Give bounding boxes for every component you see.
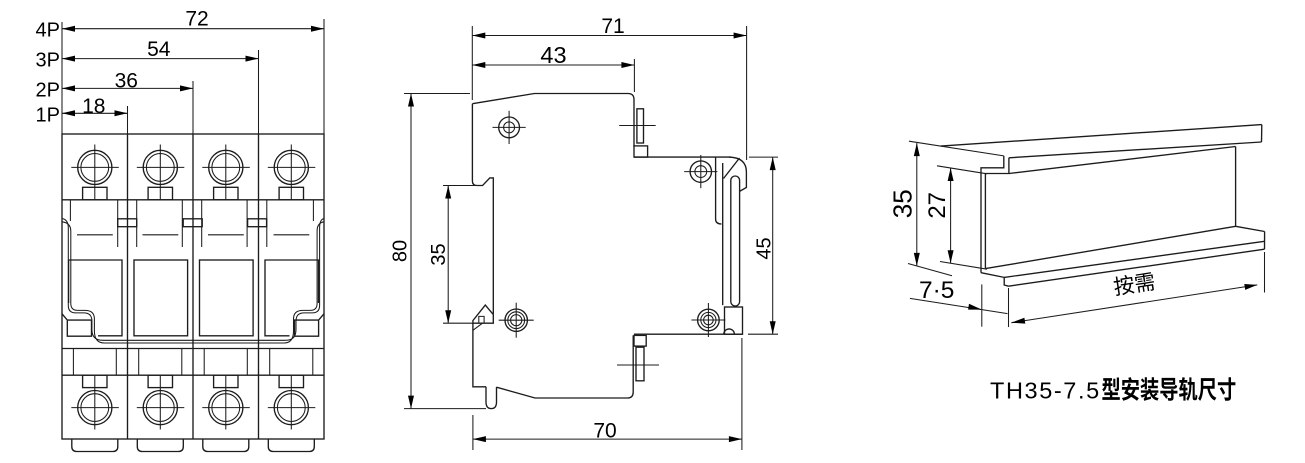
screw module2 top: [137, 150, 185, 184]
dimension 80: [389, 94, 486, 409]
dimension 71: [472, 15, 746, 160]
dimension 43: [472, 42, 634, 92]
front hook pentagon: [473, 305, 493, 323]
extension line x62: [61, 22, 63, 134]
back bottom edge: [634, 333, 743, 335]
foot module4: [268, 439, 314, 452]
rail right depth edge: [1236, 226, 1265, 231]
screw module4 bottom: [268, 391, 316, 425]
dimension 70: [473, 338, 742, 450]
back top edge: [634, 156, 731, 158]
side front lower face: [473, 323, 486, 387]
svg-text:TH35-7.5: TH35-7.5: [990, 378, 1101, 404]
side front upper face: [472, 104, 493, 315]
svg-text:80: 80: [389, 240, 411, 262]
rail top flange right cap: [1261, 125, 1263, 142]
rail bottom lip depth edge left: [981, 273, 1009, 287]
screw module2 bottom: [137, 391, 185, 425]
clamp module2 bottom: [148, 375, 172, 387]
latch bottom box: [725, 307, 743, 334]
svg-text:2P: 2P: [36, 80, 60, 102]
clamp row bottom line: [62, 374, 324, 376]
dimension anxu (length as needed): [1009, 252, 1265, 327]
rail interior top edge: [1009, 147, 1236, 174]
latch top diagonal: [724, 158, 740, 179]
clamp module1 top: [83, 187, 107, 200]
dimension 7.5 rail: [910, 277, 1008, 327]
hook wedge: [473, 323, 483, 330]
screw side top-left: [493, 111, 526, 144]
foot module3: [203, 439, 249, 452]
screw side bottom-left: [499, 303, 534, 338]
cover step bottom-left outer: [68, 306, 285, 341]
clamp module4 top: [279, 187, 303, 200]
window module2: [134, 260, 188, 336]
latch bottom bump: [724, 329, 735, 334]
window module1: [69, 260, 122, 336]
svg-text:36: 36: [115, 69, 138, 92]
cover arc top-left inner: [62, 222, 71, 304]
dash module3: [208, 234, 244, 236]
screw module3 bottom: [202, 391, 250, 425]
latch top right rounded: [729, 157, 746, 191]
rail interior bottom edge: [985, 226, 1235, 268]
svg-text:3P: 3P: [36, 50, 60, 72]
rail top flange bottom long edge: [1009, 142, 1262, 158]
clamp row top line: [62, 348, 324, 350]
dimension 45: [748, 157, 778, 334]
module divider x193: [192, 134, 194, 439]
latch arm left line: [716, 157, 722, 224]
svg-text:7·5: 7·5: [919, 277, 954, 304]
extension line x193: [192, 81, 194, 134]
clamp module3 bottom: [214, 375, 238, 387]
screw module1 top: [71, 150, 119, 184]
breaker body outline: [62, 134, 324, 439]
cover arc top-left outer: [62, 219, 68, 306]
top clip tab rect: [637, 109, 644, 143]
dimension 27 rail: [924, 166, 987, 269]
top clip crosshair: [619, 125, 656, 127]
front foot tab: [486, 387, 497, 409]
clamp module1 bottom: [83, 375, 107, 387]
left edge box: [62, 314, 92, 336]
rail top lip outer drop: [981, 156, 1004, 273]
side body top outline: [472, 94, 634, 147]
dimension 35 side: [428, 186, 476, 324]
clamp row vertical 312.8: [312, 349, 314, 376]
cross-divider box 1: [118, 219, 137, 227]
clamp module4 bottom: [279, 375, 303, 387]
bottom terminal screws: [71, 375, 315, 451]
screw side top-right: [684, 155, 717, 188]
svg-text:27: 27: [924, 192, 951, 219]
rail bottom front bottom edge: [1009, 249, 1265, 286]
clamp row vertical 73.4: [72, 349, 74, 376]
cover arc top-right inner: [317, 222, 324, 304]
svg-text:45: 45: [754, 237, 776, 259]
cover step bottom-right inner: [284, 304, 317, 344]
rail bottom lip front top edge: [1004, 241, 1264, 277]
rail top lip inner drop: [985, 158, 1009, 269]
clamp row verticals near divider3: [246, 349, 248, 376]
svg-text:35: 35: [888, 189, 918, 218]
module divider x127.5: [127, 134, 129, 439]
cover step bottom-right outer: [286, 306, 320, 341]
section line below top terminals: [62, 199, 324, 201]
module divider x258.5: [258, 134, 260, 439]
dimension 35 rail: [888, 143, 953, 276]
extension line x127.5: [127, 106, 129, 134]
screw module4 top: [268, 150, 316, 184]
svg-text:1P: 1P: [36, 105, 60, 127]
bottom clip crosshair: [617, 364, 659, 366]
clamp row verticals near divider2: [181, 349, 183, 376]
dimension 72: [62, 8, 324, 32]
bottom chin outline: [497, 335, 634, 398]
top terminal screws: [71, 145, 315, 200]
foot module1: [72, 439, 118, 452]
svg-text:43: 43: [540, 42, 566, 68]
screw module1 bottom: [71, 391, 119, 425]
bottom clip small rect: [634, 335, 646, 346]
svg-text:18: 18: [82, 95, 105, 118]
top clip small rect: [634, 146, 648, 157]
rail top depth edge + 35 extension: [909, 141, 1004, 156]
right edge box: [295, 314, 325, 336]
cross-divider box 3: [248, 219, 267, 227]
svg-text:71: 71: [601, 15, 624, 38]
dash module4: [274, 234, 310, 236]
rail web right end: [1235, 147, 1237, 227]
clamp row verticals near divider1: [115, 349, 117, 376]
svg-text:72: 72: [185, 8, 208, 31]
svg-text:4P: 4P: [36, 20, 60, 42]
cover step bottom-left inner: [71, 304, 284, 344]
svg-text:70: 70: [593, 419, 616, 442]
extension line x324: [323, 19, 325, 134]
rail right end cap: [1264, 232, 1266, 250]
upper-middle inner verticals: [69, 200, 71, 221]
dimension 54: [62, 38, 259, 62]
screw module3 top: [202, 150, 250, 184]
svg-text:54: 54: [147, 38, 171, 61]
svg-text:35: 35: [428, 243, 450, 265]
latch slot: [731, 176, 740, 306]
clamp module2 top: [148, 187, 172, 200]
dash module2: [143, 234, 179, 236]
window module4: [265, 260, 319, 336]
latch arm second line: [722, 163, 724, 305]
clamp module3 top: [214, 187, 238, 200]
screw side bottom-right: [691, 303, 725, 337]
cover arc top-right outer: [320, 219, 324, 306]
dimension 36: [62, 69, 193, 92]
foot module2: [137, 439, 183, 452]
middle section details: [62, 200, 324, 375]
cross-divider box 2: [183, 219, 202, 227]
hook notch: [479, 316, 484, 322]
dimension 18: [62, 95, 128, 118]
bottom clip tab rect: [636, 347, 644, 381]
dash module1: [77, 234, 113, 236]
rail top flange top edge: [941, 125, 1262, 147]
window module3: [200, 260, 254, 336]
extension line x258.5: [258, 50, 260, 134]
